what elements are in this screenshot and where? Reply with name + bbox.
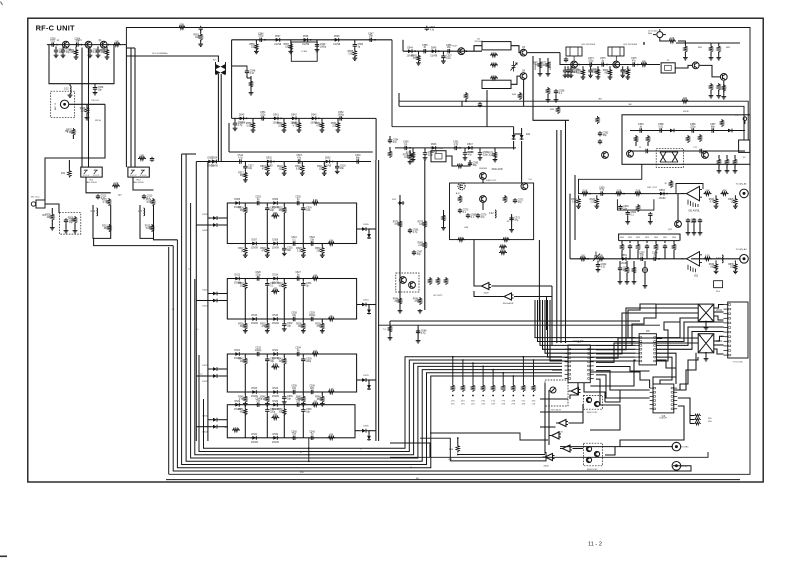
wire — [540, 439, 548, 441]
resistor R28 — [260, 247, 269, 255]
ground — [301, 254, 306, 258]
svg-text:X402 IY-02: X402 IY-02 — [587, 412, 599, 414]
wire — [283, 354, 285, 357]
svg-text:0.22: 0.22 — [489, 213, 494, 215]
transistor Q6 — [520, 71, 527, 80]
wire — [540, 300, 636, 345]
svg-text:TO MIC: TO MIC — [681, 447, 689, 449]
wire — [337, 118, 339, 121]
wire — [298, 118, 300, 121]
connector — [740, 254, 749, 263]
resistor R21 — [317, 165, 326, 173]
wire — [486, 90, 488, 127]
ground — [618, 280, 623, 284]
capacitor C101 — [663, 244, 667, 249]
svg-text:1K: 1K — [731, 201, 734, 203]
resistor R126 — [636, 204, 639, 212]
wire — [596, 367, 650, 372]
svg-text:1SV99: 1SV99 — [272, 248, 280, 250]
resistor R135 — [728, 263, 737, 271]
wire — [690, 415, 694, 417]
svg-text:0.22: 0.22 — [64, 89, 69, 91]
resistor R79 — [418, 220, 427, 228]
ground — [725, 169, 730, 173]
svg-text:4.7K: 4.7K — [103, 202, 108, 204]
wire — [718, 52, 720, 56]
ground — [441, 59, 446, 63]
wire — [283, 279, 285, 282]
transistor Q14 — [692, 62, 699, 69]
wire — [283, 203, 285, 206]
svg-text:X405: X405 — [543, 466, 549, 468]
svg-text:1000p: 1000p — [255, 350, 262, 352]
resistor R56 — [249, 43, 258, 51]
wire — [714, 349, 724, 354]
wire — [535, 300, 636, 338]
wire — [302, 319, 304, 322]
wire — [244, 405, 246, 408]
ground — [320, 402, 325, 406]
bus wire B2 — [173, 246, 691, 471]
svg-text:1SV99: 1SV99 — [272, 396, 280, 398]
wire — [424, 160, 426, 310]
wire — [533, 56, 569, 120]
wire — [196, 375, 212, 377]
resistor R19 — [277, 165, 286, 173]
wire — [367, 379, 376, 381]
resistor R27 — [238, 247, 247, 255]
wire — [398, 93, 400, 106]
ground — [625, 280, 630, 284]
svg-text:D538: D538 — [303, 36, 309, 38]
resistor R12 — [102, 198, 111, 206]
ground — [64, 229, 69, 233]
wire — [552, 369, 562, 371]
ground — [546, 72, 551, 76]
diode D6 — [272, 199, 280, 209]
svg-text:TO-3(5)-A4: TO-3(5)-A4 — [735, 248, 747, 251]
transistor Q24 — [586, 457, 591, 462]
wire — [218, 224, 227, 226]
wire — [596, 195, 598, 197]
resistor R17 — [238, 171, 247, 179]
capacitor C86 — [690, 124, 696, 133]
resistor R64 — [388, 150, 391, 158]
resistor R39 — [315, 322, 324, 330]
ground — [68, 94, 73, 98]
resistor R101 — [576, 68, 585, 76]
diode D13 — [234, 275, 242, 285]
wire — [491, 285, 552, 287]
svg-text:1SV99: 1SV99 — [251, 323, 259, 325]
bottom long wire — [166, 479, 740, 481]
wire — [626, 261, 628, 266]
diode D25 — [212, 367, 218, 371]
capacitor C71 — [509, 216, 520, 222]
capacitor C10 — [64, 218, 75, 224]
resistor R9 — [45, 213, 54, 221]
ground — [563, 74, 568, 78]
resistor R16 — [112, 183, 120, 188]
wire — [569, 404, 584, 423]
svg-text:D531: D531 — [252, 434, 258, 436]
wire — [266, 212, 268, 244]
resistor R111 — [733, 158, 736, 166]
resistor R10 — [138, 155, 146, 160]
ground — [282, 252, 287, 256]
capacitor C72 — [513, 198, 524, 204]
resistor R108 — [720, 119, 723, 127]
svg-text:A-27: A-27 — [456, 192, 461, 195]
resistor R134 — [709, 263, 718, 271]
wire — [461, 101, 463, 106]
wire — [250, 76, 252, 91]
wire — [375, 118, 377, 160]
resistor R138 — [456, 445, 459, 453]
capacitor C38 — [301, 357, 312, 363]
wire — [244, 162, 246, 165]
wire — [656, 338, 662, 340]
resistor R18 — [260, 165, 269, 173]
wire — [220, 74, 222, 77]
junction — [308, 447, 310, 449]
wire — [635, 142, 637, 146]
resistor R74 — [406, 151, 415, 159]
wire — [368, 305, 370, 309]
capacitor C69 — [466, 213, 477, 219]
wire — [72, 135, 74, 139]
wire — [626, 273, 628, 280]
svg-text:D503: D503 — [325, 158, 331, 160]
wire — [244, 364, 246, 392]
module — [698, 334, 714, 353]
shield box — [656, 149, 683, 168]
wire — [336, 162, 338, 165]
resistor R2 — [194, 33, 203, 41]
ground — [733, 205, 738, 209]
svg-text:22K: 22K — [622, 72, 627, 74]
wire — [208, 368, 212, 370]
diode D44 — [407, 47, 415, 57]
svg-text:C5072P: C5072P — [659, 418, 667, 420]
wire — [244, 279, 246, 282]
wire — [283, 118, 285, 121]
wire — [218, 368, 227, 370]
wire — [218, 293, 227, 295]
diode D46 — [430, 144, 438, 154]
svg-text:0.01: 0.01 — [601, 266, 606, 268]
resistor R113 — [646, 135, 649, 143]
wire — [570, 66, 572, 68]
svg-text:2.2K: 2.2K — [297, 250, 302, 252]
wire — [368, 380, 370, 384]
capacitor C75 — [600, 58, 606, 66]
wire — [266, 203, 268, 206]
capacitor C2 — [425, 26, 436, 32]
wire — [627, 216, 629, 220]
svg-text:B-5 10.695MHz: B-5 10.695MHz — [152, 53, 167, 55]
diode D52 — [727, 129, 733, 133]
diode D35 — [361, 429, 367, 433]
wire — [464, 160, 470, 166]
wire — [578, 193, 687, 195]
bus wire B4 — [182, 154, 562, 465]
svg-text:D515: D515 — [363, 300, 369, 302]
resistor R93 — [503, 195, 506, 203]
svg-text:1K: 1K — [330, 316, 333, 318]
wire — [196, 300, 212, 302]
diode D31 — [251, 434, 259, 444]
ground — [352, 57, 357, 61]
wire — [544, 383, 546, 454]
wire — [266, 413, 268, 438]
op-amp IC126 — [560, 445, 572, 452]
resistor R57 — [284, 43, 293, 51]
capacitor C96 — [698, 218, 702, 223]
ground — [714, 205, 719, 209]
wire — [247, 77, 251, 79]
resistor R110 — [725, 158, 728, 166]
diode D4 — [211, 158, 219, 168]
wire — [283, 162, 285, 165]
svg-text:M-47: M-47 — [453, 46, 459, 48]
resistor R99 — [591, 68, 600, 76]
wire — [482, 203, 484, 211]
transistor Q12 — [571, 61, 578, 68]
diode D7 — [251, 240, 259, 250]
wire — [539, 58, 541, 72]
resistor R130 — [636, 243, 639, 251]
resistor R103 — [621, 68, 630, 76]
wire — [655, 250, 657, 259]
capacitor C95 — [692, 218, 696, 223]
capacitor C21 — [291, 237, 297, 246]
capacitor C16 — [355, 155, 361, 164]
svg-text:D524: D524 — [273, 388, 279, 390]
ground — [265, 329, 270, 333]
op-amp IC203 — [569, 388, 581, 395]
ground — [243, 254, 248, 258]
ground — [546, 98, 551, 102]
resistor R36 — [238, 322, 247, 330]
crystal X1 — [648, 29, 666, 38]
ground — [297, 128, 302, 132]
svg-text:1SV99: 1SV99 — [251, 442, 259, 444]
wire — [302, 392, 304, 395]
wire — [511, 214, 513, 228]
diode D49 — [520, 134, 524, 140]
wire — [705, 322, 707, 327]
resistor pack RP1 — [694, 414, 713, 425]
wire — [714, 305, 724, 309]
capacitor C89 — [698, 149, 703, 153]
transistor Q18 — [702, 152, 709, 159]
svg-text:ANT J1: ANT J1 — [54, 102, 57, 110]
ground — [320, 254, 325, 258]
ground — [320, 128, 325, 132]
svg-text:D532: D532 — [273, 434, 279, 436]
wire — [283, 405, 285, 408]
wire — [656, 332, 723, 350]
svg-text:W1 CK-2: W1 CK-2 — [31, 197, 40, 199]
resistor R45 — [238, 395, 247, 403]
diode D1 — [207, 158, 215, 168]
resistor R86 — [388, 325, 391, 333]
resistor R54 — [232, 428, 240, 431]
wire — [678, 353, 696, 390]
svg-text:X51 AN78L: X51 AN78L — [688, 210, 700, 213]
wire — [55, 46, 57, 48]
svg-text:10K: 10K — [599, 256, 604, 258]
resistor ladder 6T3 — [532, 359, 536, 405]
ground — [608, 75, 613, 79]
junction — [308, 454, 310, 456]
svg-text:D504: D504 — [212, 158, 218, 160]
capacitor C55 — [422, 45, 428, 54]
wire — [596, 313, 698, 354]
svg-text:4.7p: 4.7p — [421, 333, 426, 335]
ground — [588, 74, 593, 78]
svg-text:1000p: 1000p — [338, 114, 345, 116]
svg-text:D502: D502 — [266, 158, 272, 160]
ground — [566, 73, 571, 77]
svg-text:4.7p: 4.7p — [413, 232, 418, 234]
wire — [677, 216, 679, 221]
wire — [246, 74, 248, 78]
wire — [399, 195, 401, 310]
transistor Q4 — [458, 48, 465, 55]
wire — [560, 53, 562, 65]
capacitor C41 — [295, 398, 301, 407]
resistor R70 — [546, 87, 549, 95]
wire long mid — [390, 452, 708, 457]
svg-text:D516: D516 — [273, 315, 279, 317]
diode D36 — [367, 435, 371, 441]
ground — [416, 61, 421, 65]
wire — [185, 153, 187, 155]
wire — [389, 147, 391, 150]
diode D30 — [272, 401, 280, 411]
ground — [251, 128, 256, 132]
wire — [656, 357, 672, 384]
capacitor C3 — [50, 38, 56, 47]
ground — [198, 43, 203, 47]
wire — [412, 148, 414, 151]
svg-text:5.6K: 5.6K — [147, 202, 152, 204]
connector J3 — [724, 302, 749, 364]
wire — [218, 419, 227, 421]
resistor R24 — [238, 206, 247, 214]
svg-text:D535: D535 — [363, 426, 369, 428]
wire — [597, 66, 599, 68]
wire — [527, 52, 560, 54]
capacitor C13 — [142, 194, 153, 200]
wire — [207, 162, 209, 442]
wire — [208, 419, 212, 421]
wire — [690, 423, 694, 425]
resistor R50 — [327, 435, 335, 440]
resistor R107 — [596, 116, 599, 124]
wire — [154, 238, 178, 239]
capacitor C9 — [93, 86, 104, 92]
capacitor C66 — [408, 228, 419, 234]
svg-text:D539: D539 — [334, 36, 340, 38]
wire — [548, 300, 636, 357]
diode D8 — [272, 240, 280, 250]
ground — [692, 231, 697, 235]
svg-text:22K: 22K — [278, 125, 283, 127]
op-amp IC472 — [556, 420, 568, 427]
resistor ladder 7T5 — [501, 372, 505, 405]
svg-text:C9 0.01: C9 0.01 — [91, 100, 99, 102]
transistor Q23 — [594, 451, 599, 456]
wire — [69, 103, 105, 105]
transistor Q13 — [613, 61, 620, 68]
wire — [368, 431, 370, 435]
resistor R55 — [249, 80, 252, 88]
wire — [51, 208, 53, 213]
wire — [560, 446, 673, 448]
svg-text:D529: D529 — [235, 401, 241, 403]
wire — [705, 353, 707, 357]
svg-text:22K: 22K — [332, 125, 337, 127]
filter stage FL1 — [227, 203, 356, 244]
wire — [664, 241, 666, 243]
ground — [243, 329, 248, 333]
wire — [596, 304, 698, 345]
diode D19 — [361, 303, 367, 307]
wire — [550, 300, 636, 361]
ground — [733, 270, 738, 274]
wire — [443, 210, 445, 226]
capacitor C60 — [403, 142, 409, 150]
ground — [596, 75, 601, 79]
svg-text:0.01: 0.01 — [93, 52, 98, 54]
resistor R132 — [672, 243, 675, 251]
wire — [200, 29, 202, 33]
svg-text:D44: D44 — [526, 134, 531, 136]
parallel RC block — [619, 240, 680, 242]
svg-text:4.7p: 4.7p — [454, 144, 459, 146]
svg-text:D540: D540 — [239, 115, 245, 117]
wire — [653, 353, 676, 384]
coupling box — [291, 42, 317, 61]
IC IC7 — [565, 342, 594, 383]
capacitor C51 — [260, 112, 266, 121]
wire — [538, 240, 540, 321]
wire — [605, 447, 615, 455]
svg-text:X400-AOR: X400-AOR — [491, 168, 502, 171]
resistor R89 — [457, 238, 465, 241]
capacitor C94 — [686, 218, 697, 224]
wire — [649, 217, 651, 220]
svg-text:10K: 10K — [279, 412, 284, 414]
wire — [646, 249, 648, 258]
crystal filter CF1 — [431, 148, 446, 162]
wire — [446, 156, 456, 166]
wire — [290, 40, 292, 43]
svg-text:BEL-205-D: BEL-205-D — [86, 182, 97, 184]
ground — [322, 172, 327, 176]
capacitor C19 — [255, 197, 261, 206]
diode D16 — [272, 315, 280, 325]
wire — [266, 363, 268, 393]
capacitor C5 — [54, 48, 65, 54]
ground — [301, 402, 306, 406]
connector — [740, 189, 749, 198]
wire — [551, 343, 553, 345]
wire — [734, 261, 736, 263]
